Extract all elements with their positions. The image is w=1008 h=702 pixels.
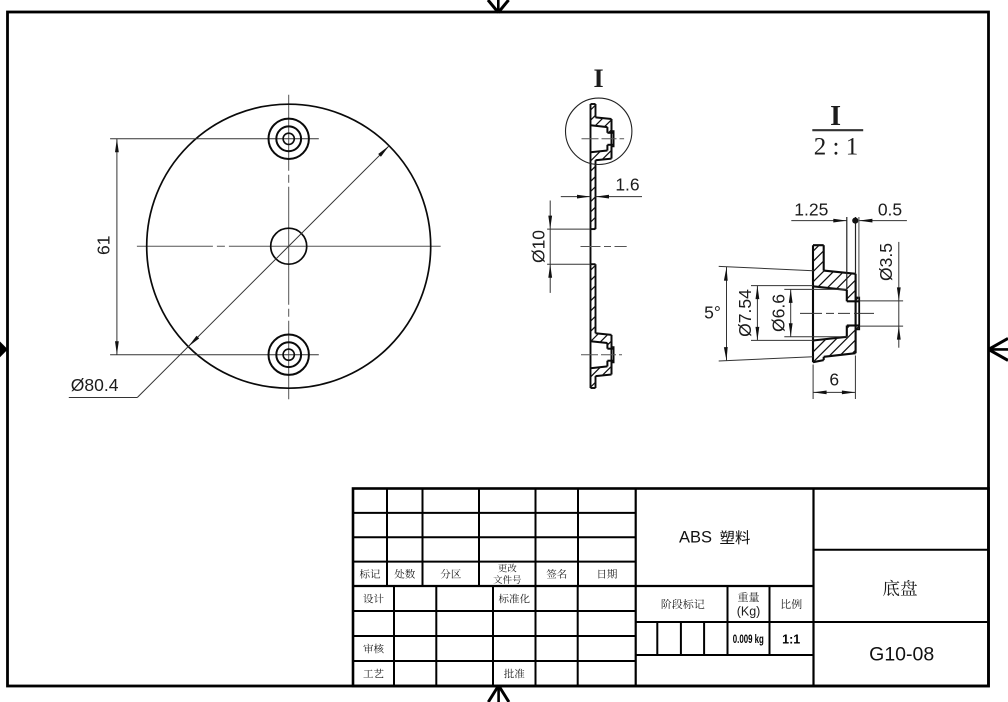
detail view part outline <box>812 245 814 362</box>
front top boss pocket circle D7.54 <box>276 126 301 151</box>
dimension 5deg extension lines <box>719 266 814 270</box>
svg-text:Ø7.54: Ø7.54 <box>735 289 755 337</box>
front bottom boss hole circle D3.5 <box>283 349 294 360</box>
front view outer circle D80.4 <box>147 104 431 388</box>
dimension 6 extension lines <box>812 365 814 400</box>
side view bottom boss centerline <box>581 354 622 356</box>
svg-text:1:1: 1:1 <box>782 633 800 647</box>
title block grid <box>353 489 989 687</box>
front top boss crosshair / 61-dim extension line <box>110 138 319 140</box>
svg-text:ABS: ABS <box>679 529 712 547</box>
dimension 1.25 line <box>791 220 847 222</box>
svg-text:61: 61 <box>94 236 114 255</box>
title block labels <box>360 569 370 579</box>
dimension D3.5 extension lines <box>860 300 904 302</box>
left centering mark <box>0 342 8 358</box>
svg-text:5°: 5° <box>704 303 721 323</box>
svg-text:I: I <box>593 64 603 93</box>
svg-text:Ø10: Ø10 <box>529 230 549 263</box>
dimension 6 line <box>813 391 855 393</box>
svg-text:1.6: 1.6 <box>615 175 639 195</box>
detail title divider <box>812 129 863 131</box>
dimension D80.4 line <box>137 146 389 398</box>
right centering mark <box>989 348 1008 351</box>
svg-text:(Kg): (Kg) <box>737 605 761 619</box>
dimension D6.6 extension lines <box>784 288 847 290</box>
svg-text:0.5: 0.5 <box>878 200 902 220</box>
bottom centering mark <box>497 686 500 702</box>
dimension 1.25 origin dot <box>852 218 858 224</box>
front view center hole D10 <box>271 228 307 264</box>
front bottom boss pocket circle D7.54 <box>276 342 301 367</box>
front bottom boss crosshair / 61-dim extension line <box>110 354 319 356</box>
dimension 0.5 line <box>859 220 907 222</box>
dimension 1.6 line <box>561 196 591 198</box>
svg-text:Ø3.5: Ø3.5 <box>876 243 896 281</box>
svg-text:0.009 kg: 0.009 kg <box>733 632 764 646</box>
side view plate outline <box>590 104 592 388</box>
dimension D10 line <box>549 201 551 293</box>
svg-text:I: I <box>830 101 841 132</box>
svg-text:Ø80.4: Ø80.4 <box>71 375 119 395</box>
dimension D7.54 extension lines <box>751 285 813 287</box>
dimension 61 line <box>116 139 118 355</box>
svg-text:2 : 1: 2 : 1 <box>814 134 858 161</box>
svg-text:Ø6.6: Ø6.6 <box>768 294 788 332</box>
top centering mark <box>497 0 500 13</box>
detail circle I marker <box>566 98 632 164</box>
dimension 5deg line <box>726 267 728 361</box>
dimension D6.6 line <box>790 289 792 336</box>
dimension D3.5 line <box>898 242 900 348</box>
side view boss outlines <box>596 117 612 119</box>
detail view centerline <box>800 312 876 314</box>
front bottom boss outer circle <box>269 335 309 375</box>
front top boss outer circle <box>269 119 309 159</box>
svg-text:1.25: 1.25 <box>794 200 828 220</box>
dimension D7.54 line <box>756 286 758 341</box>
side view top boss centerline <box>582 138 625 140</box>
dimension D10 extension lines <box>547 228 590 230</box>
front top boss hole circle D3.5 <box>283 133 294 144</box>
front view horizontal centerline <box>137 245 441 247</box>
front view vertical centerline <box>288 95 290 400</box>
svg-text:G10-08: G10-08 <box>869 644 934 666</box>
side view mid centerline <box>581 246 627 248</box>
svg-text:6: 6 <box>829 370 839 390</box>
